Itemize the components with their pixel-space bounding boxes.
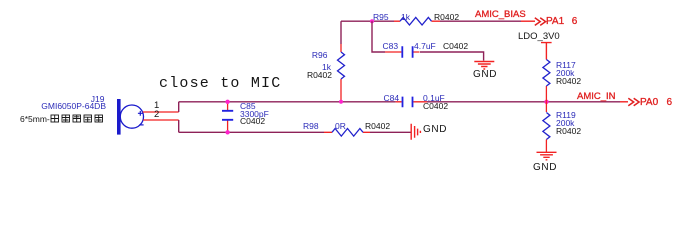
wire step up from pin1 to AMIC net [178, 102, 180, 112]
microphone J19 body [117, 99, 144, 135]
label C84 footprint C0402 [423, 102, 448, 111]
power symbol LDO_3V0 [541, 43, 552, 60]
label GMI6050P-64DB [41, 102, 106, 111]
resistor R96 [338, 44, 345, 102]
label R98 footprint R0402 [365, 122, 390, 131]
wire AMIC_IN net to port [427, 101, 620, 103]
label R95 footprint R0402 [434, 13, 459, 22]
label C84 value 0.1uF [423, 94, 445, 103]
wire red stub into port PA0 [620, 101, 628, 103]
node junction dot C85 bottom [225, 130, 229, 134]
label C85 footprint C0402 [240, 117, 265, 126]
label R98 [303, 122, 319, 131]
wire step down from pin2 to bottom net [178, 120, 180, 132]
node junction dot R96 bottom [339, 100, 343, 104]
capacitor C83 [385, 46, 420, 57]
capacitor C84 [396, 97, 427, 108]
port chevron PA1 [535, 18, 546, 26]
node junction dot C83 tap [370, 19, 374, 23]
port sheet number 6 (PA0) [667, 98, 673, 108]
label R119 value 200k [556, 119, 574, 128]
label GND under R119 [533, 163, 557, 173]
wire mic pin 1 [143, 111, 179, 113]
capacitor C85 [222, 102, 233, 133]
port name PA0 [640, 98, 658, 108]
label C84 [384, 94, 400, 103]
node junction dot R117 R119 [544, 100, 548, 104]
wire C83 to ground [420, 52, 484, 61]
ground symbol sideways at R98 [411, 124, 420, 140]
label GND under C83 [473, 70, 497, 80]
wire vertical from rail to R96 [340, 21, 342, 44]
label R119 footprint R0402 [556, 127, 581, 136]
label C83 footprint C0402 [443, 42, 468, 51]
port chevron PA0 [628, 98, 639, 106]
wire top rail AMIC_BIAS net [341, 20, 394, 22]
net label AMIC_IN [577, 92, 616, 102]
net label AMIC_BIAS [475, 10, 526, 20]
ground symbol under R119 [537, 152, 557, 160]
ground symbol under C83 [474, 62, 494, 70]
label R96 [312, 51, 328, 60]
wire top rail to port PA1 [440, 20, 521, 22]
label R95 value 1k [401, 13, 410, 22]
label R119 [556, 111, 576, 120]
label R96 value 1k [322, 63, 331, 72]
label C83 value 4.7uF [414, 42, 436, 51]
wire R98 to ground [370, 131, 411, 133]
wire bottom net horizontal [179, 131, 324, 133]
label R95 [373, 13, 389, 22]
label R117 footprint R0402 [556, 77, 581, 86]
power net label LDO_3V0 [518, 32, 560, 42]
wire AMIC net horizontal [179, 101, 396, 103]
label R98 value 0R [335, 122, 346, 131]
label close to MIC [159, 76, 281, 91]
pin number 2 [154, 110, 159, 120]
label 6*5mm Chinese mic note [20, 114, 105, 124]
label R117 value 200k [556, 69, 574, 78]
port name PA1 [546, 17, 564, 27]
label C85 value 3300pF [240, 110, 269, 119]
pin number 1 [154, 101, 159, 111]
resistor R98 [324, 129, 370, 137]
label R117 [556, 61, 576, 70]
wire red stub into port PA1 [521, 20, 535, 22]
label C83 [383, 42, 399, 51]
resistor R95 [394, 17, 440, 25]
wire C83 branch vertical and horizontal [372, 21, 385, 52]
resistor R119 [543, 102, 550, 152]
label J19 [91, 95, 105, 104]
label C85 [240, 102, 256, 111]
port sheet number 6 (PA1) [572, 17, 578, 27]
label GND at R98 [423, 125, 447, 135]
wire mic pin 2 [143, 119, 179, 121]
resistor R117 [543, 60, 550, 102]
node junction dot C85 top [225, 100, 229, 104]
label R96 footprint R0402 [307, 71, 332, 80]
